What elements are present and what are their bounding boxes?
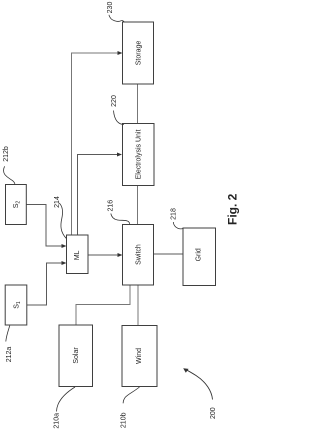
svg-text:216: 216	[108, 200, 115, 212]
svg-text:212a: 212a	[6, 347, 13, 363]
block Storage 230	[123, 22, 154, 84]
svg-text:200: 200	[210, 407, 217, 419]
svg-text:Switch: Switch	[136, 244, 143, 265]
wire ML to Switch with arrow	[88, 253, 123, 257]
block Grid 218	[183, 228, 216, 286]
block ML 214	[67, 235, 89, 274]
svg-text:Electrolysis Unit: Electrolysis Unit	[136, 130, 143, 180]
block S1 212a	[5, 285, 27, 325]
label 214	[54, 196, 66, 238]
wire Storage to Electrolysis Unit	[137, 84, 139, 124]
wire Switch to Wind	[137, 285, 139, 326]
block Switch 216	[123, 225, 154, 286]
label 216	[108, 200, 130, 225]
svg-text:220: 220	[111, 95, 118, 107]
svg-text:214: 214	[54, 196, 61, 208]
block Wind 210b	[122, 326, 157, 387]
wire S1 to ML with arrow	[27, 261, 67, 305]
wire Electrolysis Unit to Switch	[137, 186, 139, 225]
block Electrolysis Unit 220	[123, 124, 155, 186]
label 220	[111, 95, 124, 124]
wire Switch to Grid	[154, 253, 184, 255]
svg-text:Fig. 2: Fig. 2	[226, 193, 240, 225]
wire Switch to Solar	[76, 285, 130, 325]
svg-text:230: 230	[107, 2, 114, 14]
svg-text:218: 218	[171, 208, 178, 220]
svg-text:Grid: Grid	[195, 248, 202, 261]
svg-text:ML: ML	[74, 250, 81, 260]
wire ML to Storage with arrow	[72, 51, 123, 235]
wire ML to Electrolysis Unit with arrow	[78, 153, 123, 236]
label 210a	[54, 387, 75, 429]
label 230	[107, 2, 124, 23]
svg-text:212b: 212b	[3, 146, 10, 162]
block S2 212b	[6, 185, 27, 225]
label 212a	[6, 326, 13, 363]
wire S2 to ML with arrow	[26, 205, 66, 249]
svg-text:210a: 210a	[54, 413, 61, 429]
label 212b	[3, 146, 15, 184]
label 218	[171, 208, 184, 229]
label 200 with arrow	[183, 368, 217, 419]
svg-text:210b: 210b	[121, 412, 128, 428]
block Solar 210a	[59, 325, 93, 387]
svg-text:Solar: Solar	[73, 347, 80, 364]
label 210b	[121, 387, 140, 428]
svg-text:Storage: Storage	[136, 41, 143, 66]
svg-text:Wind: Wind	[136, 348, 143, 364]
